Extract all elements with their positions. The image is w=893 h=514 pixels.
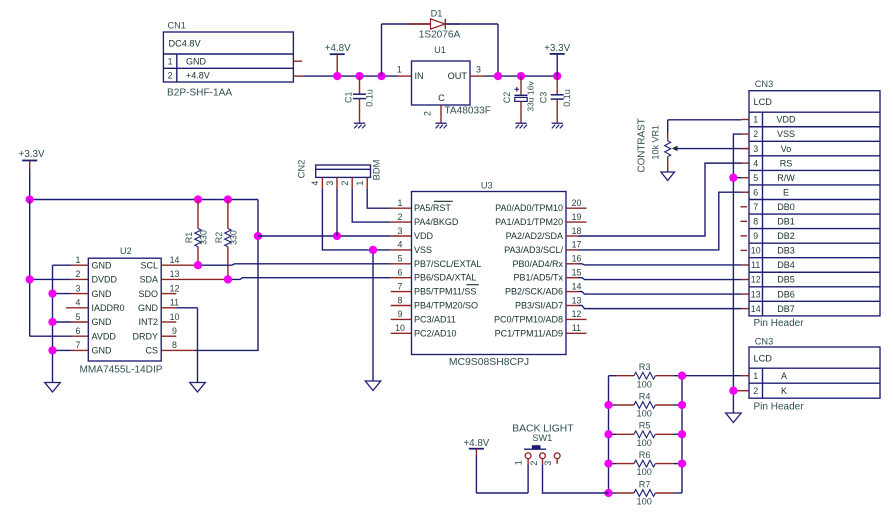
svg-text:0.1u: 0.1u xyxy=(562,89,572,107)
svg-text:20: 20 xyxy=(572,198,582,208)
svg-text:1: 1 xyxy=(76,255,81,265)
LCD pin 14 DB7 xyxy=(751,304,795,314)
svg-text:PA4/BKGD: PA4/BKGD xyxy=(414,217,459,227)
svg-text:PA1/AD1/TPM20: PA1/AD1/TPM20 xyxy=(495,217,563,227)
LCD backlight connector CN3 xyxy=(749,336,880,412)
svg-text:PB5/TPM11/SS: PB5/TPM11/SS xyxy=(414,287,476,297)
U3 pin 16 PB0/AD4/Rx xyxy=(512,254,581,269)
svg-text:VSS: VSS xyxy=(414,245,432,255)
U3 pin 3 VDD xyxy=(398,226,434,241)
U2 pin10 INT2 stub xyxy=(161,321,176,323)
svg-text:3: 3 xyxy=(476,64,481,74)
LCD pin 8 DB1 xyxy=(753,217,795,227)
pin 2 U1 xyxy=(423,105,442,123)
svg-text:1: 1 xyxy=(753,115,758,125)
svg-text:3: 3 xyxy=(325,181,335,186)
svg-text:5: 5 xyxy=(76,312,81,322)
ground xyxy=(365,381,381,391)
svg-text:9: 9 xyxy=(172,326,177,336)
svg-text:RS: RS xyxy=(780,158,793,168)
LCD pin 9 DB2 xyxy=(753,231,795,241)
junction xyxy=(224,195,232,203)
svg-text:14: 14 xyxy=(170,255,180,265)
svg-text:8: 8 xyxy=(172,340,177,350)
power +3.3V xyxy=(544,43,570,76)
wire resistor bank left rail xyxy=(608,376,610,493)
wire CN2-1 to U3 RST xyxy=(367,189,411,208)
wire SDA U2 to U3 xyxy=(161,278,411,280)
SW1 pin2 wire xyxy=(543,459,609,493)
LCD pin 12 DB5 xyxy=(751,275,795,285)
junction xyxy=(729,387,737,395)
svg-text:18: 18 xyxy=(572,226,582,236)
svg-text:PB7/SCL/EXTAL: PB7/SCL/EXTAL xyxy=(414,259,481,269)
junction xyxy=(377,72,385,80)
U2 pin 11 GND xyxy=(138,298,179,313)
svg-text:+3.3V: +3.3V xyxy=(19,149,45,160)
ground xyxy=(515,123,527,128)
svg-text:16: 16 xyxy=(572,254,582,264)
svg-text:2: 2 xyxy=(753,386,758,396)
svg-text:DB3: DB3 xyxy=(777,246,795,256)
junction xyxy=(517,72,525,80)
U3 pin 8 PB4/TPM20/SO xyxy=(398,295,478,310)
wire U1 OUT to +3.3V xyxy=(485,75,558,77)
svg-text:7: 7 xyxy=(76,340,81,350)
svg-text:GND: GND xyxy=(92,317,113,327)
overline SS xyxy=(466,284,478,286)
junction xyxy=(333,232,341,240)
U2 pin 10 INT2 xyxy=(138,312,179,327)
svg-text:MC9S08SH8CPJ: MC9S08SH8CPJ xyxy=(449,357,529,368)
junction xyxy=(604,430,612,438)
LCD pin 4 RS xyxy=(753,158,792,168)
svg-text:DC4.8V: DC4.8V xyxy=(169,39,202,49)
svg-text:4: 4 xyxy=(76,298,81,308)
wire U3 pin18 to LCD RS xyxy=(566,163,749,236)
LCD connector CN3 xyxy=(749,79,880,329)
svg-text:14: 14 xyxy=(572,281,582,291)
svg-text:3: 3 xyxy=(753,144,758,154)
svg-text:100: 100 xyxy=(637,497,652,507)
svg-text:2: 2 xyxy=(398,212,403,222)
svg-text:B2P-SHF-1AA: B2P-SHF-1AA xyxy=(167,88,232,99)
U3 pin 19 PA1/AD1/TPM20 xyxy=(495,212,581,227)
LCD pin 8 stub xyxy=(741,220,748,222)
wire CN2-3 to VDD net xyxy=(336,189,338,236)
CN2 pin 3 xyxy=(325,177,337,189)
U3 pin 17 PA3/AD3/SCL/ xyxy=(504,240,581,255)
power +3.3V left xyxy=(19,149,45,200)
junction xyxy=(678,430,686,438)
svg-text:CN3: CN3 xyxy=(755,79,773,89)
U3 pin 13 PB3/SI/AD7 xyxy=(515,295,582,310)
potentiometer VR1 xyxy=(637,118,749,172)
connector CN1 xyxy=(163,21,293,99)
svg-text:VDD: VDD xyxy=(414,231,434,241)
svg-text:PA2/AD2/SDA: PA2/AD2/SDA xyxy=(506,231,563,241)
svg-text:CS: CS xyxy=(145,346,158,356)
U3 pin8 stub xyxy=(391,305,412,307)
LCD pin 7 stub xyxy=(741,206,748,208)
junction xyxy=(678,459,686,467)
svg-text:PB4/TPM20/SO: PB4/TPM20/SO xyxy=(414,301,478,311)
svg-text:7: 7 xyxy=(398,281,403,291)
svg-text:IN: IN xyxy=(415,71,424,81)
svg-text:6: 6 xyxy=(398,268,403,278)
capacitor C1 xyxy=(344,76,375,122)
junction xyxy=(48,318,56,326)
svg-text:OUT: OUT xyxy=(448,71,468,81)
junction xyxy=(369,246,377,254)
svg-text:100: 100 xyxy=(637,467,652,477)
svg-text:4: 4 xyxy=(310,181,320,186)
svg-text:PC2/AD10: PC2/AD10 xyxy=(414,328,457,338)
svg-text:12: 12 xyxy=(572,309,582,319)
junction xyxy=(729,174,737,182)
resistor R7 xyxy=(609,479,683,506)
svg-text:2: 2 xyxy=(168,71,173,81)
svg-text:12: 12 xyxy=(170,283,180,293)
svg-text:10: 10 xyxy=(395,323,405,333)
U3 pin20 stub xyxy=(566,207,587,209)
svg-text:PB0/AD4/Rx: PB0/AD4/Rx xyxy=(512,259,563,269)
svg-text:C1: C1 xyxy=(344,91,354,103)
svg-text:7: 7 xyxy=(753,202,758,212)
svg-text:13: 13 xyxy=(751,289,761,299)
regulator U1 xyxy=(412,45,491,117)
svg-text:SW1: SW1 xyxy=(532,433,552,443)
wire U3 pin16 to LCD DB4 xyxy=(566,264,749,265)
svg-text:DRDY: DRDY xyxy=(132,331,158,341)
svg-text:C2: C2 xyxy=(502,92,512,104)
svg-text:DB1: DB1 xyxy=(777,217,795,227)
junction xyxy=(494,72,502,80)
svg-text:PC0/TPM10/AD8: PC0/TPM10/AD8 xyxy=(494,314,563,324)
svg-text:R3: R3 xyxy=(639,362,651,372)
svg-text:R4: R4 xyxy=(639,391,651,401)
junction xyxy=(553,72,561,80)
ground xyxy=(661,172,675,181)
svg-text:4: 4 xyxy=(398,240,403,250)
svg-text:LCD: LCD xyxy=(754,97,773,107)
ground xyxy=(435,123,447,128)
wire +3.3V horizontal rail xyxy=(30,199,258,201)
power +4.8V backlight xyxy=(463,438,528,493)
LCD pin1 stub xyxy=(742,118,750,120)
svg-text:17: 17 xyxy=(572,240,582,250)
svg-text:DVDD: DVDD xyxy=(92,275,118,285)
wire LCD VSS RW ground chain xyxy=(733,134,749,412)
svg-text:DB0: DB0 xyxy=(777,202,795,212)
svg-text:0.1u: 0.1u xyxy=(365,89,375,107)
svg-text:Vo: Vo xyxy=(781,144,792,154)
svg-text:100: 100 xyxy=(637,409,652,419)
svg-text:3: 3 xyxy=(398,226,403,236)
U3 pin 20 PA0/AD0/TPM10 xyxy=(495,198,581,213)
svg-text:CONTRAST: CONTRAST xyxy=(637,118,648,172)
svg-text:13: 13 xyxy=(572,295,582,305)
wire U3 pin13 to LCD DB7 xyxy=(566,306,749,309)
junction xyxy=(48,289,56,297)
pin 3 U1 xyxy=(470,64,485,76)
svg-text:+4.8V: +4.8V xyxy=(325,43,351,54)
LCD pin2 stub xyxy=(742,133,750,135)
U2 pin 2 DVDD xyxy=(76,269,118,284)
U3 pin19 stub xyxy=(566,221,587,223)
svg-text:10: 10 xyxy=(170,312,180,322)
capacitor C3 xyxy=(539,76,573,122)
U3 pin10 stub xyxy=(391,332,412,334)
U2 pin9 DRDY stub xyxy=(161,335,176,337)
capacitor C2 xyxy=(502,76,536,122)
LCD pin 7 DB0 xyxy=(753,202,795,212)
wire U2 pin11 GND to ground xyxy=(161,308,197,383)
svg-text:1: 1 xyxy=(355,181,365,186)
svg-text:11: 11 xyxy=(751,260,760,270)
MCU U3 xyxy=(412,181,567,368)
svg-text:LCD: LCD xyxy=(754,353,773,363)
junction xyxy=(604,401,612,409)
svg-text:11: 11 xyxy=(572,323,581,333)
svg-text:33u 16v: 33u 16v xyxy=(526,81,536,112)
switch SW1 xyxy=(512,423,574,465)
svg-text:6: 6 xyxy=(76,326,81,336)
svg-text:PB3/SI/AD7: PB3/SI/AD7 xyxy=(515,301,563,311)
junction xyxy=(26,195,34,203)
svg-text:4: 4 xyxy=(753,158,758,168)
svg-text:VSS: VSS xyxy=(777,129,795,139)
LCD pin 1 VDD xyxy=(753,115,796,125)
U3 pin 12 PC0/TPM10/AD8 xyxy=(494,309,582,324)
wire resistor bank right rail xyxy=(681,376,683,493)
svg-text:PA3/AD3/SCL/: PA3/AD3/SCL/ xyxy=(504,245,563,255)
svg-text:PA5/RST: PA5/RST xyxy=(414,203,451,213)
U2 pin 4 IADDR0 xyxy=(76,298,125,313)
svg-text:R1: R1 xyxy=(184,232,194,243)
U2 pin 1 GND xyxy=(76,255,112,270)
svg-text:SDO: SDO xyxy=(138,289,158,299)
ground xyxy=(45,383,61,393)
svg-text:10: 10 xyxy=(751,246,761,256)
svg-text:BDM: BDM xyxy=(371,159,382,180)
svg-text:9: 9 xyxy=(398,309,403,319)
svg-text:11: 11 xyxy=(170,298,179,308)
U2 pin 12 SDO xyxy=(138,283,179,298)
U3 pin7 stub xyxy=(391,291,412,293)
U3 pin 1 PA5/RST xyxy=(398,198,452,213)
svg-text:DB7: DB7 xyxy=(777,304,795,314)
svg-text:5: 5 xyxy=(753,173,758,183)
svg-text:15: 15 xyxy=(572,268,582,278)
junction xyxy=(678,401,686,409)
svg-text:PB2/SCK/AD6: PB2/SCK/AD6 xyxy=(505,287,563,297)
svg-text:+3.3V: +3.3V xyxy=(544,43,570,54)
resistor R3 xyxy=(609,362,683,389)
resistor R4 xyxy=(609,391,683,418)
svg-text:5: 5 xyxy=(398,254,403,264)
U2 pin 5 GND xyxy=(76,312,112,327)
junction xyxy=(224,275,232,283)
LCD pin 10 stub xyxy=(741,249,748,251)
svg-text:CN2: CN2 xyxy=(296,160,307,179)
svg-text:1S2076A: 1S2076A xyxy=(419,29,461,40)
power +4.8V xyxy=(325,43,351,76)
wire +3.3V left rail to DVDD AVDD xyxy=(30,200,89,337)
svg-text:6: 6 xyxy=(753,187,758,197)
connector CN2 xyxy=(296,159,382,180)
wire U3 pin15 to LCD DB5 xyxy=(566,278,749,280)
svg-text:IADDR0: IADDR0 xyxy=(92,303,125,313)
CN2 pin 2 xyxy=(340,177,352,189)
svg-text:CN3: CN3 xyxy=(755,336,773,346)
svg-text:U1: U1 xyxy=(434,45,446,55)
svg-text:PB1/AD5/Tx: PB1/AD5/Tx xyxy=(513,273,563,283)
svg-text:10k VR1: 10k VR1 xyxy=(651,125,661,160)
diode D1 xyxy=(382,9,499,77)
accelerometer U2 xyxy=(79,246,162,375)
resistor R1 xyxy=(184,200,209,266)
LCD pin 13 DB6 xyxy=(751,289,795,299)
svg-text:19: 19 xyxy=(572,212,582,222)
svg-text:PC1/TPM11/AD9: PC1/TPM11/AD9 xyxy=(495,328,563,338)
svg-text:1: 1 xyxy=(753,371,758,381)
svg-text:2: 2 xyxy=(76,269,81,279)
svg-text:2: 2 xyxy=(753,129,758,139)
junction xyxy=(194,261,202,269)
svg-text:GND: GND xyxy=(92,260,113,270)
svg-text:SCL: SCL xyxy=(140,260,158,270)
U3 pin 6 PB6/SDA/XTAL xyxy=(398,268,477,283)
wire backlight anode xyxy=(682,375,749,377)
svg-text:AVDD: AVDD xyxy=(92,331,117,341)
svg-text:GND: GND xyxy=(92,346,113,356)
U3 pin 11 PC1/TPM11/AD9 xyxy=(495,323,582,338)
svg-text:GND: GND xyxy=(138,303,159,313)
svg-text:3: 3 xyxy=(76,283,81,293)
svg-text:9: 9 xyxy=(753,231,758,241)
overline RST xyxy=(434,200,453,202)
svg-text:+4.8V: +4.8V xyxy=(186,71,210,81)
wire CN2-2 to U3 BKGD xyxy=(352,189,411,222)
svg-text:1: 1 xyxy=(168,57,173,67)
svg-text:VDD: VDD xyxy=(776,115,796,125)
U2 pin12 SDO stub xyxy=(161,293,176,295)
U3 pin 15 PB1/AD5/Tx xyxy=(513,268,581,283)
svg-text:INT2: INT2 xyxy=(138,317,158,327)
svg-text:CN1: CN1 xyxy=(168,21,186,31)
LCD pin 11 DB4 xyxy=(751,260,795,270)
svg-text:2: 2 xyxy=(529,461,539,466)
svg-text:C3: C3 xyxy=(539,92,549,104)
svg-text:Pin Header: Pin Header xyxy=(754,318,805,329)
resistor R5 xyxy=(609,421,683,448)
U3 pin11 stub xyxy=(566,332,587,334)
wire CN2-4 to VSS net xyxy=(322,189,411,381)
svg-text:R6: R6 xyxy=(639,450,651,460)
U3 pin 5 PB7/SCL/EXTAL xyxy=(398,254,482,269)
wire U2 GND chain xyxy=(53,265,89,382)
svg-text:12: 12 xyxy=(751,275,761,285)
ground xyxy=(726,413,742,423)
LCD pin 5 R/W xyxy=(753,173,795,183)
junction xyxy=(604,489,612,497)
U3 pin 10 PC2/AD10 xyxy=(395,323,456,338)
resistor R2 xyxy=(214,200,239,280)
LCD pin 3 Vo xyxy=(753,144,791,154)
junction xyxy=(254,232,262,240)
svg-text:Pin Header: Pin Header xyxy=(754,402,805,413)
U3 pin9 stub xyxy=(391,318,412,320)
svg-text:14: 14 xyxy=(751,304,761,314)
svg-text:PB6/SDA/XTAL: PB6/SDA/XTAL xyxy=(414,273,476,283)
resistor R6 xyxy=(609,450,683,477)
svg-text:D1: D1 xyxy=(431,9,443,19)
svg-text:A: A xyxy=(781,371,787,381)
svg-text:DB2: DB2 xyxy=(777,231,795,241)
svg-text:R2: R2 xyxy=(214,232,224,243)
CN2 pin 4 xyxy=(310,177,322,189)
svg-text:GND: GND xyxy=(92,289,113,299)
wire U3 pin17 to LCD E xyxy=(566,192,749,250)
svg-text:DB4: DB4 xyxy=(777,260,795,270)
LCD pin 10 DB3 xyxy=(751,246,795,256)
svg-text:330: 330 xyxy=(199,230,209,245)
U2 pin 3 GND xyxy=(76,283,112,298)
junction xyxy=(26,275,34,283)
svg-text:1: 1 xyxy=(397,64,402,74)
ground xyxy=(552,123,564,128)
U2 pin 7 GND xyxy=(76,340,112,355)
svg-text:8: 8 xyxy=(753,217,758,227)
U3 pin 2 PA4/BKGD xyxy=(398,212,459,227)
svg-text:100: 100 xyxy=(637,379,652,389)
U2 pin 9 DRDY xyxy=(132,326,177,341)
U3 pin12 stub xyxy=(566,318,587,320)
U3 pin 7 PB5/TPM11/SS xyxy=(398,281,477,296)
svg-text:+4.8V: +4.8V xyxy=(463,438,489,449)
svg-text:C: C xyxy=(438,93,445,103)
junction xyxy=(194,195,202,203)
ground xyxy=(354,123,366,128)
LCD pin 6 E xyxy=(753,187,789,197)
junction xyxy=(604,459,612,467)
U3 pin 18 PA2/AD2/SDA xyxy=(506,226,582,241)
LCD pin3 stub xyxy=(742,148,750,150)
U3 pin 4 VSS xyxy=(398,240,432,255)
LCD pin 2 VSS xyxy=(753,129,795,139)
SW1 pin1 wire xyxy=(527,459,529,493)
svg-text:8: 8 xyxy=(398,295,403,305)
junction xyxy=(48,346,56,354)
svg-text:K: K xyxy=(781,386,787,396)
junction xyxy=(678,372,686,380)
svg-text:13: 13 xyxy=(170,269,180,279)
svg-text:TA48033F: TA48033F xyxy=(445,106,491,117)
U2 pin 13 SDA xyxy=(139,269,179,284)
svg-text:DB5: DB5 xyxy=(777,275,795,285)
U2 pin 14 SCL xyxy=(140,255,179,270)
wire SCL U2 to U3 xyxy=(161,264,411,265)
svg-text:2: 2 xyxy=(340,181,350,186)
svg-text:330: 330 xyxy=(228,230,238,245)
U3 pin 9 PC3/AD11 xyxy=(398,309,456,324)
svg-text:GND: GND xyxy=(186,57,207,67)
U2 pin 8 CS xyxy=(145,340,177,355)
svg-text:MMA7455L-14DIP: MMA7455L-14DIP xyxy=(79,364,162,375)
wire +4.8V rail xyxy=(304,75,398,77)
svg-text:R7: R7 xyxy=(639,479,651,489)
